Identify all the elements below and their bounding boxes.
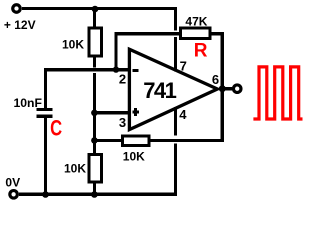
wire top supply rail +12V xyxy=(22,7,177,10)
wire 47K right lead xyxy=(212,32,224,35)
op-amp U1 741 triangle xyxy=(129,49,217,129)
resistor R1 10K upper divider xyxy=(89,28,101,56)
wire pin3 horizontal xyxy=(93,111,131,114)
wire R2 bottom lead xyxy=(93,183,96,195)
svg-text:7: 7 xyxy=(180,58,187,73)
wire capacitor bottom lead xyxy=(44,118,47,196)
capacitor C 10nF plate bottom xyxy=(37,115,53,118)
wire pin4 vertical upper segment xyxy=(174,107,177,136)
wire output to terminal xyxy=(224,87,232,90)
capacitor C 10nF plate top xyxy=(37,108,53,111)
wire feedback riser vertical xyxy=(114,32,117,69)
wire output vertical pin6 column xyxy=(221,32,224,142)
node junction pin6 output xyxy=(219,85,226,92)
wire pin2 horizontal xyxy=(44,68,131,71)
svg-text:47K: 47K xyxy=(185,14,207,28)
wire divider mid segment below pin2 crossover xyxy=(93,73,96,155)
svg-text:C: C xyxy=(50,115,62,140)
svg-text:3: 3 xyxy=(119,115,126,130)
terminal output xyxy=(233,85,241,93)
wire bottom rail 0V xyxy=(19,193,177,196)
node junction divider bottom to rail xyxy=(91,191,98,198)
wire pin7 supply vertical upper segment xyxy=(174,7,177,31)
wire R1 bottom lead (gap before pin2 wire crossover) xyxy=(93,57,96,67)
wire feedback top horizontal to 47K xyxy=(114,32,180,35)
op-amp non-inverting input plus sign xyxy=(132,111,139,114)
wire pin7 supply vertical lower segment xyxy=(174,37,177,72)
svg-text:R: R xyxy=(194,40,208,61)
node junction top rail to divider xyxy=(92,6,99,13)
node junction pin2 feedback riser xyxy=(113,66,119,72)
svg-text:4: 4 xyxy=(179,107,187,122)
node junction divider to pin3 xyxy=(91,110,98,117)
svg-text:10nF: 10nF xyxy=(14,96,42,110)
output square wave symbol xyxy=(253,67,302,119)
wire positive feedback left lead xyxy=(93,139,122,142)
terminal +12V xyxy=(13,5,21,13)
node junction divider to R3 xyxy=(91,137,98,144)
svg-text:+ 12V: + 12V xyxy=(4,18,36,32)
svg-text:6: 6 xyxy=(212,72,219,87)
svg-text:10K: 10K xyxy=(123,149,145,163)
resistor R3 10K positive feedback xyxy=(122,136,148,146)
resistor R 47K feedback xyxy=(180,28,210,38)
svg-text:741: 741 xyxy=(143,78,176,103)
node junction capacitor bottom to rail xyxy=(42,191,49,198)
svg-text:10K: 10K xyxy=(64,161,86,175)
svg-text:2: 2 xyxy=(119,71,126,86)
op-amp inverting input minus sign xyxy=(133,69,139,72)
terminal 0V xyxy=(10,191,18,199)
wire positive feedback bottom horizontal xyxy=(150,139,224,142)
wire pin4 vertical lower segment xyxy=(174,144,177,196)
svg-text:0V: 0V xyxy=(5,176,20,190)
wire capacitor top lead xyxy=(44,68,47,108)
resistor R2 10K lower divider xyxy=(89,155,102,183)
svg-text:10K: 10K xyxy=(62,38,84,52)
wire R1 top lead xyxy=(93,8,96,28)
